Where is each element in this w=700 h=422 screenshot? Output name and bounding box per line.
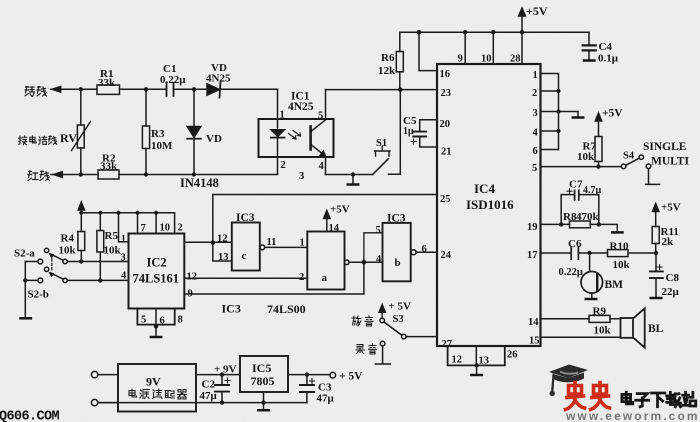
wire red line bottom [51,157,278,178]
svg-text:10: 10 [481,54,492,65]
svg-text:4.7μ: 4.7μ [583,185,602,196]
svg-text:2k: 2k [662,236,675,248]
label 录音 [356,344,377,354]
svg-text:+ 9V: + 9V [214,364,237,376]
svg-text:S2-b: S2-b [28,289,49,301]
svg-text:1: 1 [121,235,126,245]
svg-text:28: 28 [510,54,521,65]
power adapter terminals [91,371,118,405]
S2 common to ground [21,262,31,319]
resistor R6 12k [378,52,403,90]
svg-text:+5V: +5V [526,4,548,18]
svg-text:21: 21 [441,147,452,158]
svg-text:2: 2 [532,88,537,99]
svg-text:IC5: IC5 [252,361,271,375]
svg-text:S4: S4 [623,151,635,162]
svg-text:14: 14 [528,317,539,328]
+5V arrow top [519,4,548,32]
svg-text:+5V: +5V [330,204,350,216]
ground rail bottom [98,392,307,410]
label IC3 74LS00 [222,302,306,317]
svg-text:1μ: 1μ [403,126,414,137]
label 放音 [352,316,373,326]
svg-text:2: 2 [178,223,183,234]
svg-text:C7: C7 [569,179,583,191]
svg-text:12: 12 [452,355,463,366]
svg-text:10: 10 [160,223,171,234]
IC2 side pin labels [121,253,198,300]
+5V top rail [400,32,589,51]
capacitor C2 47u [200,375,231,403]
svg-text:BL: BL [648,323,664,335]
svg-text:SINGLE: SINGLE [643,141,687,153]
speaker BL [621,309,664,348]
svg-text:9V: 9V [146,375,161,389]
IC4 bottom sub-box pins 12 13 [448,346,518,375]
wire +5V output [288,371,363,383]
svg-text:R5: R5 [105,230,119,242]
label 接电话线 [18,136,56,145]
svg-text:6: 6 [533,146,538,157]
switch S2-a [14,248,129,264]
svg-text:11: 11 [267,237,277,248]
switch S3 record/play [379,301,437,339]
svg-text:14: 14 [329,223,340,234]
svg-text:15: 15 [529,336,540,347]
wire node down to IC3c pin13 [213,243,232,261]
optocoupler IC1 4N25 box [259,91,334,183]
IC1 phototransistor [311,90,326,175]
switch S2-b [25,267,128,300]
9V adapter box [118,364,196,412]
S2 gang dashed link [51,255,53,271]
svg-text:7805: 7805 [251,374,275,388]
svg-text:S1: S1 [376,138,387,149]
svg-text:+ 5V: + 5V [389,301,412,313]
node dot R6/S1/pin23 junction [398,87,403,92]
svg-text:47μ: 47μ [317,393,335,405]
svg-text:9: 9 [458,54,463,65]
resistor R10 10k [608,241,631,272]
svg-text:1: 1 [280,110,285,121]
svg-text:S3: S3 [393,314,404,325]
svg-text:IC4: IC4 [474,181,495,196]
capacitor C8 22u [650,253,680,298]
svg-text:4: 4 [533,128,539,139]
nand gate IC3 b [376,213,427,282]
svg-text:8: 8 [178,315,183,326]
wire IC3c out to IC3a pin1 [265,246,308,248]
svg-text:3: 3 [533,108,538,119]
capacitor C5 1u on pins 20/21 [403,115,437,147]
IC1 internal LED [271,119,301,157]
+5V arrow above R11 [653,202,681,223]
wire IC2 pin12 to IC3a pin2 [184,277,307,279]
wire IC1 pin5 to junction and IC4 pin23 [326,89,438,91]
svg-text:IC2: IC2 [147,256,167,270]
svg-text:R10: R10 [610,241,629,253]
svg-text:33k: 33k [98,77,116,89]
IC2 bottom sub-box pins 5 6 8 [137,309,182,338]
svg-text:470k: 470k [576,211,600,223]
logo 电子下载站 black [622,392,696,407]
resistor R7 10k [577,121,602,169]
svg-text:4N25: 4N25 [206,73,231,85]
svg-text:10k: 10k [594,325,612,337]
+5V rail above IC2 [78,202,174,234]
IC4 ISD1016 box [437,64,541,346]
svg-text:2: 2 [281,160,286,171]
svg-text:R8: R8 [563,211,577,223]
diode VD 4N25 series [206,62,231,98]
svg-text:IC3: IC3 [222,302,241,316]
capacitor C7 4.7u loop [561,179,601,225]
svg-text:+ 5V: + 5V [339,371,363,383]
node dots on top rail [417,30,524,34]
logo 虫虫 red [566,383,610,410]
svg-text:C6: C6 [568,238,582,250]
svg-text:IC3: IC3 [387,213,406,225]
resistor R4 10k [59,213,85,264]
regulator IC5 7805 [240,356,288,392]
wire IC4 pin15 [529,336,621,347]
resistor R9 10k [589,306,612,337]
wire node to IC3c pin12 [213,241,232,243]
svg-text:Q606.COM: Q606.COM [0,410,60,422]
svg-text:12k: 12k [378,65,396,77]
wire pin16 riser [419,32,437,70]
svg-text:22μ: 22μ [662,286,680,298]
label 绿线 [25,87,47,97]
node dots phone rails [79,87,197,177]
wire IC1 pin4 to S1 [326,90,401,175]
IC2 pin1 stub [119,213,129,245]
svg-text:R9: R9 [593,306,607,318]
svg-text:c: c [242,250,247,262]
wire pin25 long line [213,195,437,243]
nand gate IC3 c [217,212,276,271]
capacitor C3 47u [300,375,335,405]
svg-text:5: 5 [532,163,537,174]
IC4 top pin stubs 9 10 28 [458,32,523,64]
svg-text:4: 4 [319,161,325,172]
record terminal [375,341,390,364]
wire IC4 pin14 [528,317,621,328]
svg-text:6: 6 [160,316,165,327]
wire IC4 pin5 to S4 [541,166,622,168]
switch S4 SINGLE/MULTI [621,141,689,184]
svg-text:C2: C2 [202,379,216,391]
svg-text:a: a [322,272,328,284]
label 红线 [28,171,50,181]
capacitor C1 0.22u [160,63,186,96]
IC4 right pins 1-6 bus [532,70,561,174]
resistor R1 33k [97,68,120,94]
svg-text:23: 23 [441,88,452,99]
svg-text:3: 3 [299,171,304,182]
wire IC2 pin2 to node [184,240,215,245]
wire IC4 pin19 / R8 / ground [527,222,623,233]
wire IC4 pin17 line [527,250,658,261]
wire +9V line [196,364,240,377]
svg-text:6: 6 [422,244,427,255]
svg-text:MULTI: MULTI [651,156,689,168]
svg-text:10k: 10k [613,259,631,271]
svg-text:10k: 10k [104,245,122,257]
svg-text:13: 13 [218,252,229,263]
resistor R2 33k [98,153,119,180]
switch S1 [373,138,390,174]
svg-text:4N25: 4N25 [288,101,314,113]
resistor R8 470k [563,211,600,228]
nand gate IC3 a [299,223,349,290]
wire green line top [51,86,278,119]
svg-text:RV: RV [60,131,77,145]
wire IC3a out to IC3b pin4 [349,260,382,265]
svg-text:BM: BM [605,279,624,291]
ground on pins bus [559,112,584,118]
svg-text:+5V: +5V [661,202,681,214]
svg-text:0.1μ: 0.1μ [598,53,619,65]
svg-text:5: 5 [318,111,323,122]
svg-text:R3: R3 [151,128,165,140]
wire junction down to IC2 pin9 [184,262,364,294]
ground below S1 wire [348,175,358,185]
capacitor C4 0.1u [583,32,619,64]
svg-text:0.22μ: 0.22μ [559,267,583,278]
svg-text:C4: C4 [599,41,613,53]
label 电源适配器 [129,389,187,399]
wire IC3b out to IC4 pin24 [416,251,437,253]
resistor R5 10k [97,213,122,283]
svg-text:R6: R6 [381,52,395,64]
svg-text:16: 16 [440,69,451,80]
svg-text:24: 24 [441,250,452,261]
IC2 top pin stubs 7 10 2 [138,213,183,234]
svg-text:33k: 33k [100,161,118,173]
svg-text:12: 12 [187,272,198,283]
svg-text:5: 5 [141,315,146,326]
svg-text:47μ: 47μ [200,390,218,402]
logo graduation cap [549,365,588,397]
svg-text:25: 25 [440,194,451,205]
svg-text:1: 1 [533,70,538,81]
varistor RV [60,89,91,174]
svg-text:10k: 10k [59,245,77,257]
node dot S1 ground [351,172,355,176]
svg-text:10k: 10k [577,151,595,163]
capacitor C6 0.22u [559,238,583,278]
svg-text:0.22μ: 0.22μ [160,74,186,86]
svg-text:19: 19 [527,222,538,233]
svg-text:VD: VD [206,133,222,145]
svg-text:17: 17 [527,250,538,261]
diode VD 1N4148 shunt [187,89,222,174]
IC4 left pin labels [440,69,453,350]
svg-text:+5V: +5V [602,108,623,120]
svg-text:74LS00: 74LS00 [267,302,306,316]
svg-text:4: 4 [376,254,382,265]
svg-text:IN4148: IN4148 [180,176,219,190]
svg-text:20: 20 [440,119,451,130]
svg-text:1: 1 [300,238,305,249]
IC3a pin14 +5V [324,204,350,232]
svg-text:74LS161: 74LS161 [133,272,180,286]
wire IC3b pin5 tie [364,233,383,262]
svg-text:C8: C8 [666,272,680,284]
svg-text:26: 26 [507,350,518,361]
IC2 74LS161 box [129,234,185,309]
+5V arrow above R7 [595,108,623,122]
svg-text:10M: 10M [151,140,173,152]
svg-text:7: 7 [141,223,146,234]
resistor R11 2k [652,222,679,253]
microphone BM [581,253,623,299]
svg-text:ISD1016: ISD1016 [466,197,514,212]
resistor R3 10M [142,89,173,174]
svg-text:R4: R4 [61,233,75,245]
svg-text:b: b [395,257,401,269]
svg-text:S2-a: S2-a [14,248,35,260]
svg-text:13: 13 [479,356,490,367]
svg-text:IC3: IC3 [236,212,255,224]
svg-text:12: 12 [217,234,228,245]
svg-text:5: 5 [376,225,381,236]
svg-text:www.eeworm.com: www.eeworm.com [565,409,700,422]
